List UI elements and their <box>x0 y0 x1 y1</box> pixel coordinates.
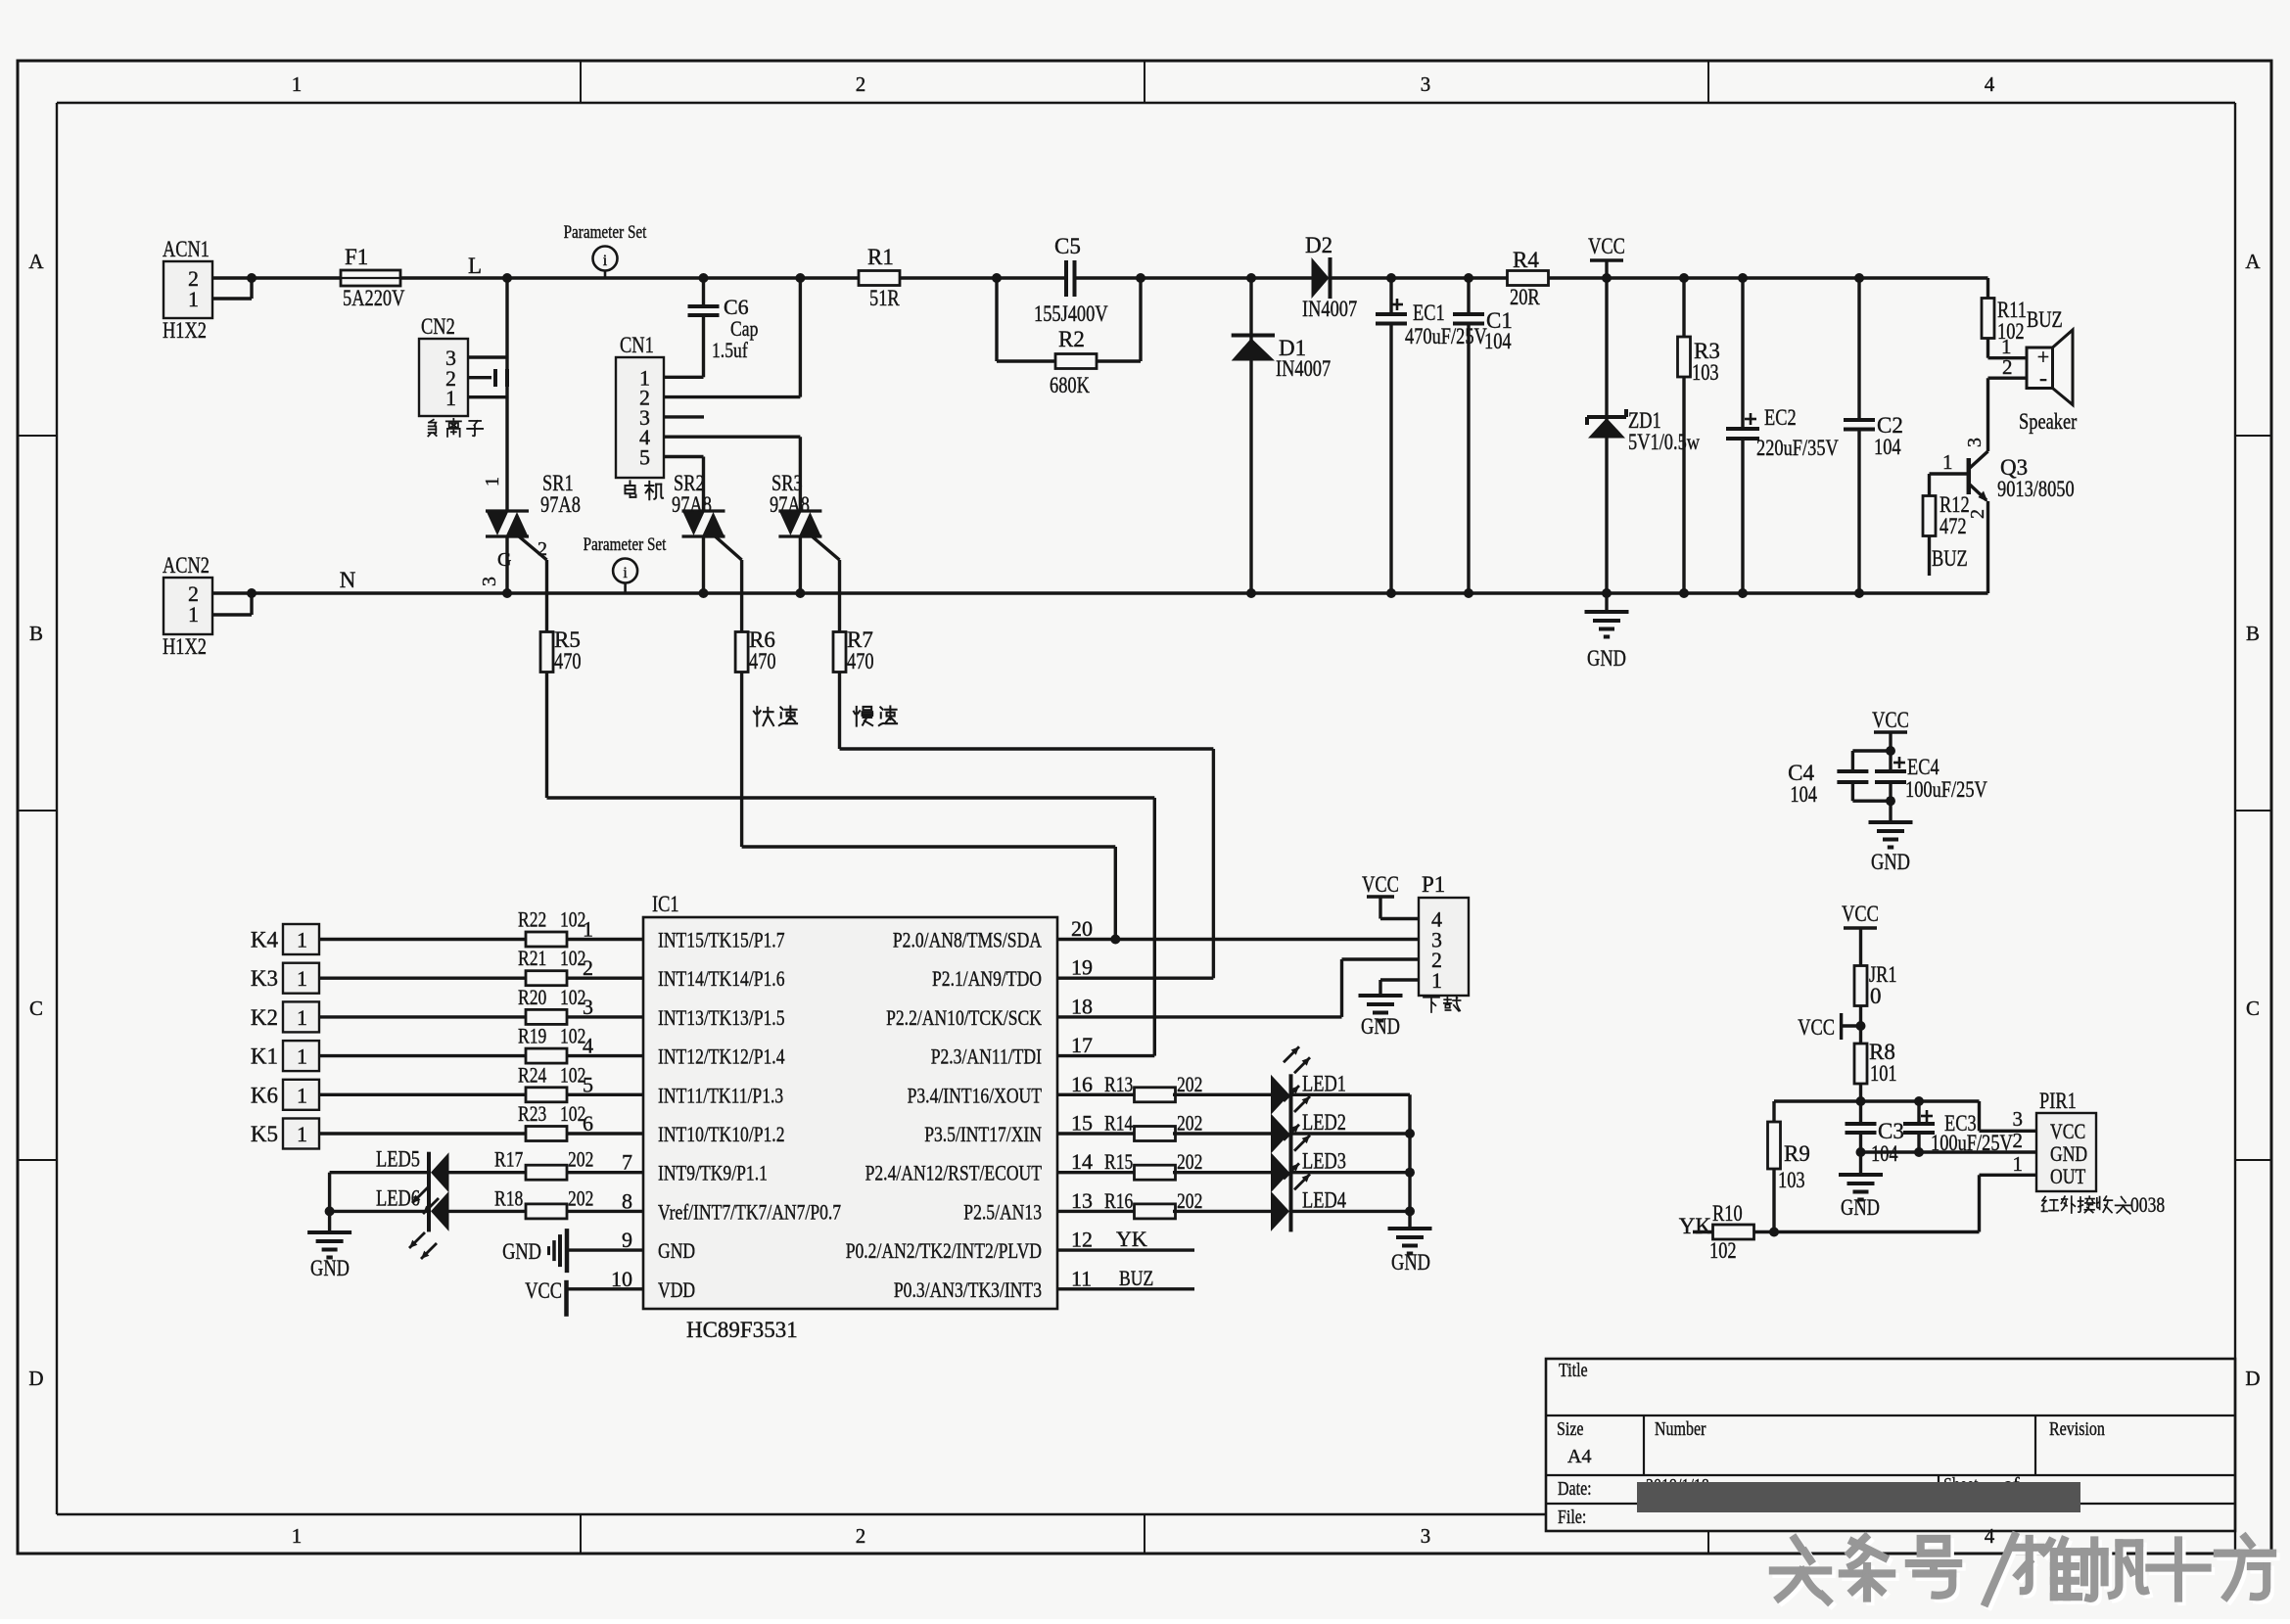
power VCC main <box>1588 234 1625 278</box>
svg-text:7: 7 <box>622 1150 632 1175</box>
svg-text:VCC: VCC <box>1588 234 1625 258</box>
junction R3 bottom <box>1679 588 1689 598</box>
net label BUZ top <box>2027 307 2063 332</box>
svg-text:3: 3 <box>1421 72 1431 96</box>
svg-text:Parameter Set: Parameter Set <box>584 534 667 555</box>
resistor R10 102 <box>1693 1201 1774 1263</box>
wire LED1 to LED gnd bus <box>1291 1093 1411 1096</box>
svg-text:4: 4 <box>1985 72 1995 96</box>
connector K6 <box>251 1080 319 1110</box>
svg-text:5: 5 <box>639 445 650 470</box>
net label N <box>340 568 356 592</box>
wire node line <box>1774 1099 1980 1102</box>
svg-text:INT11/TK11/P1.3: INT11/TK11/P1.3 <box>658 1083 783 1107</box>
junction R3 top <box>1679 273 1689 283</box>
capacitor EC2 220uF/35V <box>1726 278 1839 593</box>
svg-text:1: 1 <box>1431 968 1442 993</box>
svg-text:P3.5/INT17/XIN: P3.5/INT17/XIN <box>924 1122 1042 1146</box>
svg-text:BUZ: BUZ <box>1119 1266 1153 1290</box>
capacitor CN2-pin2 coupling plates <box>495 369 507 387</box>
svg-text:14: 14 <box>1071 1149 1093 1174</box>
svg-text:102: 102 <box>560 907 585 932</box>
power VCC at P1 <box>1362 872 1419 919</box>
IC1 left pin numbers <box>583 917 632 1291</box>
svg-text:LED3: LED3 <box>1302 1149 1346 1174</box>
svg-text:LED6: LED6 <box>376 1185 420 1210</box>
indicator Parameter Set 2 <box>584 534 667 593</box>
svg-text:102: 102 <box>560 985 585 1009</box>
wire R20 to IC pin 3 <box>567 1015 643 1018</box>
svg-text:3: 3 <box>1421 1524 1431 1548</box>
LED5 LED6 emission arrows <box>409 1187 439 1259</box>
svg-text:18: 18 <box>1071 994 1093 1018</box>
ground GND at C3 <box>1839 1152 1883 1220</box>
svg-text:1.5uf: 1.5uf <box>712 338 748 362</box>
svg-text:P0.2/AN2/TK2/INT2/PLVD: P0.2/AN2/TK2/INT2/PLVD <box>846 1238 1042 1263</box>
svg-text:680K: 680K <box>1050 373 1090 397</box>
resistor R1 51R <box>859 245 900 310</box>
svg-text:102: 102 <box>560 1101 585 1126</box>
wire SR3 gate to R7 <box>838 560 841 631</box>
resistor R23 102 <box>518 1101 585 1141</box>
svg-text:15: 15 <box>1071 1111 1093 1136</box>
svg-text:Number: Number <box>1655 1418 1706 1440</box>
junction EC1 bottom <box>1386 588 1396 598</box>
svg-text:C: C <box>2246 997 2260 1020</box>
svg-text:INT14/TK14/P1.6: INT14/TK14/P1.6 <box>658 966 785 991</box>
label xia-zai (download) <box>1424 997 1461 1012</box>
svg-text:19: 19 <box>1071 955 1093 980</box>
svg-text:GND: GND <box>658 1238 695 1263</box>
svg-text:3: 3 <box>1964 438 1986 447</box>
wire IC pin16 to R13 <box>1057 1093 1137 1096</box>
svg-text:9013/8050: 9013/8050 <box>1997 477 2075 501</box>
svg-text:1: 1 <box>297 928 307 952</box>
svg-text:1: 1 <box>292 72 303 96</box>
svg-text:1: 1 <box>2013 1152 2024 1176</box>
svg-text:1: 1 <box>445 386 456 410</box>
resistor R20 102 <box>518 985 585 1025</box>
svg-text:470: 470 <box>847 649 874 673</box>
wire R15 to LED3 <box>1173 1171 1271 1174</box>
wire R19 to IC pin 4 <box>567 1054 643 1057</box>
resistor R3 103 <box>1678 278 1720 593</box>
wire CN1 pin4 to SR3 <box>799 437 802 511</box>
junction VCC main <box>1602 273 1612 283</box>
zone labels right <box>2245 250 2261 1390</box>
capacitor C1 104 <box>1453 278 1513 593</box>
wire IC pin12 YK <box>1057 1227 1194 1251</box>
IC pin9 GND side symbol <box>502 1229 643 1273</box>
svg-text:1: 1 <box>297 1044 307 1069</box>
svg-text:C3: C3 <box>1878 1119 1904 1143</box>
wire R7 net to IC pin19 <box>840 673 1214 979</box>
svg-text:Size: Size <box>1557 1418 1584 1440</box>
triac SR3 97A8 <box>770 471 840 593</box>
svg-text:202: 202 <box>568 1147 593 1172</box>
svg-text:EC2: EC2 <box>1764 405 1797 430</box>
connector P1 (download) <box>1419 872 1469 996</box>
svg-text:100uF/25V: 100uF/25V <box>1905 777 1987 802</box>
LED LED6 <box>376 1185 449 1231</box>
LED LED3 <box>1271 1125 1346 1193</box>
svg-text:12: 12 <box>1071 1228 1093 1252</box>
svg-text:P2.3/AN11/TDI: P2.3/AN11/TDI <box>931 1044 1042 1069</box>
svg-text:P2.4/AN12/RST/ECOUT: P2.4/AN12/RST/ECOUT <box>865 1161 1043 1185</box>
transistor Q3 9013/8050 <box>1930 438 2075 593</box>
svg-text:Speaker: Speaker <box>2019 409 2078 434</box>
svg-text:1: 1 <box>482 477 503 487</box>
svg-text:BUZ: BUZ <box>1932 546 1968 571</box>
LED LED5 <box>376 1147 449 1193</box>
junction SR1 at N bus <box>502 588 512 598</box>
resistor R19 102 <box>518 1024 585 1064</box>
wire IC pin13 to R16 <box>1057 1210 1137 1213</box>
svg-text:9: 9 <box>622 1228 632 1252</box>
resistor R7 470 <box>833 627 874 673</box>
svg-text:8: 8 <box>622 1188 632 1213</box>
svg-text:ACN2: ACN2 <box>163 553 210 578</box>
zone labels bottom <box>292 1524 1995 1548</box>
wire R5 net to IC pin17 <box>547 673 1155 1056</box>
svg-text:P2.0/AN8/TMS/SDA: P2.0/AN8/TMS/SDA <box>893 928 1042 952</box>
connector K2 <box>251 1001 319 1032</box>
wire PIR pin1 OUT loop <box>1774 1175 2036 1231</box>
svg-text:Revision: Revision <box>2049 1418 2105 1440</box>
svg-text:ACN1: ACN1 <box>163 237 210 261</box>
svg-text:R10: R10 <box>1712 1201 1743 1226</box>
zone labels left <box>28 250 44 1390</box>
watermark toutiao/yafanshifang <box>1773 1536 2276 1606</box>
svg-text:R19: R19 <box>518 1024 546 1048</box>
svg-text:20R: 20R <box>1510 285 1540 309</box>
junction C1 bottom <box>1464 588 1473 598</box>
wire K2 to R20 <box>319 1015 526 1018</box>
net label YK right <box>1679 1214 1712 1238</box>
resistor R4 20R <box>1508 248 1549 309</box>
resistor R9 103 <box>1768 1101 1810 1232</box>
wire CN1 pin5 to SR2 <box>702 457 705 512</box>
svg-text:17: 17 <box>1071 1033 1093 1057</box>
svg-text:i: i <box>623 565 628 581</box>
wire N/GND bottom bus <box>252 591 1988 594</box>
svg-text:IC1: IC1 <box>652 892 679 916</box>
svg-text:VDD: VDD <box>658 1277 695 1302</box>
svg-text:CN2: CN2 <box>421 314 455 339</box>
IC1 right pin labels <box>846 928 1043 1302</box>
svg-text:LED2: LED2 <box>1302 1110 1346 1135</box>
wire node to PIR pin3 <box>1980 1101 2037 1131</box>
indicator Parameter Set 1 <box>564 222 647 278</box>
LED LED4 <box>1271 1163 1346 1231</box>
svg-text:16: 16 <box>1071 1072 1093 1096</box>
svg-text:LED4: LED4 <box>1302 1187 1346 1212</box>
wire R18 to IC pin8 <box>567 1210 643 1213</box>
junction VCC tap <box>1856 1021 1866 1031</box>
svg-text:GND: GND <box>2050 1141 2087 1166</box>
svg-text:LED1: LED1 <box>1302 1071 1346 1095</box>
IC pin10 VDD VCC bar <box>525 1278 643 1317</box>
svg-text:R22: R22 <box>518 907 546 932</box>
svg-text:YK: YK <box>1679 1214 1712 1238</box>
svg-text:R14: R14 <box>1104 1111 1133 1136</box>
svg-text:101: 101 <box>1870 1061 1897 1086</box>
junction node R8 <box>1856 1096 1866 1106</box>
junction CN1-pin2 riser at bus <box>795 273 805 283</box>
svg-text:202: 202 <box>1177 1149 1202 1174</box>
svg-text:D2: D2 <box>1305 233 1332 257</box>
svg-text:5A220V: 5A220V <box>343 286 405 310</box>
wire K3 to R21 <box>319 977 526 980</box>
diode D1 IN4007 <box>1232 278 1332 593</box>
wire K5 to R23 <box>319 1132 526 1135</box>
svg-text:20: 20 <box>1071 916 1093 941</box>
svg-text:K6: K6 <box>251 1083 278 1107</box>
wire R13 to LED1 <box>1173 1093 1271 1096</box>
power VCC at EC4 <box>1872 708 1909 751</box>
wire LED5 anode to R17 <box>449 1171 527 1174</box>
label hong-wai-jie-shou-tou 0038 (IR receiver 0038) <box>2041 1192 2165 1217</box>
svg-text:A: A <box>28 250 44 273</box>
svg-text:1: 1 <box>188 287 199 311</box>
diode D2 IN4007 <box>1302 233 1357 321</box>
svg-text:GND: GND <box>1361 1014 1400 1039</box>
svg-text:C: C <box>29 997 43 1020</box>
wire K6 to R24 <box>319 1093 526 1096</box>
wire R14 to LED2 <box>1173 1132 1271 1135</box>
resistor R15 202 <box>1104 1149 1202 1180</box>
svg-text:1: 1 <box>297 1122 307 1146</box>
junction EC4 top <box>1886 746 1895 756</box>
svg-text:104: 104 <box>1484 329 1512 353</box>
connector K5 <box>251 1119 319 1149</box>
junction R2 left <box>992 273 1002 283</box>
capacitor C5 155J400V <box>1034 234 1108 326</box>
triac SR1 97A8 <box>479 471 581 593</box>
svg-text:R24: R24 <box>518 1062 546 1087</box>
svg-text:1: 1 <box>292 1524 303 1548</box>
junction pin20/R6 <box>1110 935 1120 945</box>
svg-text:VCC: VCC <box>1872 708 1909 732</box>
zone dividers right <box>2235 436 2271 1160</box>
svg-text:File:: File: <box>1558 1507 1586 1528</box>
fuse F1 5A220V <box>341 245 405 310</box>
junction EC4 bottom <box>1886 796 1895 806</box>
wire R8 to node <box>1859 1084 1862 1101</box>
net label BUZ bottom <box>1932 546 1968 571</box>
svg-text:GND: GND <box>310 1256 350 1280</box>
wire IC pin14 to R15 <box>1057 1171 1137 1174</box>
svg-text:R20: R20 <box>518 985 546 1009</box>
wire IC pin20 to P1 pin3 <box>1057 938 1419 941</box>
label kuai-su (fast) <box>754 706 797 725</box>
svg-text:1: 1 <box>297 1083 307 1107</box>
connector ACN1 H1X2 <box>163 237 252 343</box>
svg-text:220uF/35V: 220uF/35V <box>1756 436 1839 460</box>
junction EC1 top <box>1386 273 1396 283</box>
redaction bar <box>1637 1482 2080 1512</box>
svg-text:R17: R17 <box>494 1147 523 1172</box>
resistor R13 202 <box>1104 1072 1202 1102</box>
resistor R14 202 <box>1104 1111 1202 1141</box>
wire IC pin18 to P1 pin2 <box>1057 959 1419 1017</box>
LED LED1 <box>1271 1046 1346 1115</box>
svg-text:VCC: VCC <box>2050 1119 2085 1143</box>
svg-text:D: D <box>28 1367 43 1390</box>
wire JR1 to R8 <box>1859 1006 1862 1044</box>
wire R23 to IC pin 6 <box>567 1132 643 1135</box>
svg-text:G: G <box>497 549 511 571</box>
junction C6 at bus <box>699 273 709 283</box>
triac SR2 97A8 <box>672 471 742 593</box>
svg-text:3: 3 <box>2013 1107 2024 1131</box>
svg-text:INT9/TK9/P1.1: INT9/TK9/P1.1 <box>658 1161 768 1185</box>
svg-text:0: 0 <box>1870 984 1882 1008</box>
junction SR3 at N bus <box>795 588 805 598</box>
svg-text:470: 470 <box>554 649 582 673</box>
junction ACN2 <box>247 588 257 598</box>
wire R17 to IC pin7 <box>567 1171 643 1174</box>
wire LED2 to LED gnd bus <box>1291 1132 1411 1135</box>
svg-text:2: 2 <box>537 538 547 560</box>
svg-text:-: - <box>2039 366 2047 392</box>
svg-text:104: 104 <box>1874 435 1901 459</box>
wire LED gnd bus vertical <box>1408 1094 1411 1229</box>
svg-text:103: 103 <box>1692 360 1719 385</box>
wire SR2 gate to R6 <box>740 560 743 631</box>
label dian-ji (motor) <box>625 481 663 499</box>
resistor R16 202 <box>1104 1188 1202 1219</box>
IC U IC1 HC89F3531 body <box>643 892 1057 1342</box>
svg-text:11: 11 <box>1071 1266 1092 1290</box>
junction EC2 top <box>1738 273 1748 283</box>
svg-text:103: 103 <box>1778 1168 1805 1192</box>
svg-text:LED5: LED5 <box>376 1147 420 1172</box>
title block <box>1546 1359 2235 1531</box>
svg-text:102: 102 <box>560 1024 585 1048</box>
svg-text:VCC: VCC <box>1798 1015 1835 1040</box>
svg-text:YK: YK <box>1116 1227 1147 1251</box>
wire CN1 pin2 to L bus <box>799 278 802 397</box>
wire L bus segments <box>252 276 1988 279</box>
svg-text:INT12/TK12/P1.4: INT12/TK12/P1.4 <box>658 1044 785 1069</box>
svg-text:97A8: 97A8 <box>672 492 712 517</box>
connector K1 <box>251 1041 319 1071</box>
junction C1 top <box>1464 273 1473 283</box>
wire LED6 anode to R18 <box>449 1210 527 1213</box>
svg-text:51R: 51R <box>869 286 900 310</box>
junction EC2 bottom <box>1738 588 1748 598</box>
svg-text:P3.4/INT16/XOUT: P3.4/INT16/XOUT <box>908 1083 1043 1107</box>
svg-text:R15: R15 <box>1104 1149 1133 1174</box>
svg-text:Title: Title <box>1559 1360 1588 1381</box>
svg-text:202: 202 <box>568 1185 593 1210</box>
svg-text:1: 1 <box>297 966 307 991</box>
svg-text:R9: R9 <box>1784 1141 1810 1166</box>
svg-text:B: B <box>2246 622 2260 645</box>
wire SR1 gate to R5 <box>545 560 548 631</box>
svg-text:F1: F1 <box>345 245 368 269</box>
junction SR2 at N bus <box>699 588 709 598</box>
connector K3 <box>251 963 319 994</box>
svg-text:Parameter Set: Parameter Set <box>564 222 647 243</box>
svg-text:13: 13 <box>1071 1188 1093 1213</box>
svg-text:102: 102 <box>1709 1238 1737 1263</box>
zone dividers left <box>18 436 57 1160</box>
speaker SP <box>1988 330 2078 451</box>
svg-text:H1X2: H1X2 <box>163 318 207 343</box>
junction LED4 <box>1405 1206 1415 1216</box>
junction gnd row EC3 <box>1914 1147 1924 1157</box>
svg-text:GND: GND <box>1871 850 1910 874</box>
junction LED3 <box>1405 1168 1415 1178</box>
svg-text:472: 472 <box>1939 514 1967 538</box>
zener ZD1 5V1/0.5w <box>1587 278 1700 593</box>
label fu-li-zi (negative ion) <box>428 419 483 437</box>
svg-text:N: N <box>340 568 356 592</box>
wire R6 net to IC pin20 <box>742 673 1116 940</box>
svg-text:A: A <box>2245 250 2261 273</box>
svg-text:R16: R16 <box>1104 1188 1133 1213</box>
svg-text:L: L <box>468 254 482 278</box>
svg-text:D: D <box>2245 1367 2260 1390</box>
junction node EC3 <box>1914 1096 1924 1106</box>
connector CN2 (negative-ion) <box>419 314 507 416</box>
svg-text:1: 1 <box>297 1005 307 1030</box>
svg-text:Date:: Date: <box>1558 1478 1592 1500</box>
svg-text:K5: K5 <box>251 1122 278 1146</box>
junction R2 right <box>1136 273 1145 283</box>
resistor R8 101 <box>1854 1040 1897 1086</box>
svg-text:GND: GND <box>1587 646 1626 671</box>
capacitor C6 1.5uf <box>664 278 758 377</box>
svg-text:A4: A4 <box>1567 1446 1591 1467</box>
svg-text:H1X2: H1X2 <box>163 634 207 659</box>
connector ACN2 H1X2 <box>163 553 252 659</box>
svg-text:155J400V: 155J400V <box>1034 302 1108 326</box>
svg-text:5V1/0.5w: 5V1/0.5w <box>1628 430 1700 454</box>
svg-text:2: 2 <box>2002 355 2013 379</box>
wire R16 to LED4 <box>1173 1210 1271 1213</box>
svg-text:K3: K3 <box>251 966 278 991</box>
wire R22 to IC pin 1 <box>567 938 643 941</box>
ground GND left of LEDs <box>307 1211 351 1280</box>
wire LED3 to LED gnd bus <box>1291 1171 1411 1174</box>
resistor R17 202 <box>494 1147 593 1181</box>
resistor R6 470 <box>735 627 776 673</box>
svg-text:EC1: EC1 <box>1413 301 1445 325</box>
svg-text:PIR1: PIR1 <box>2039 1089 2077 1113</box>
svg-text:IN4007: IN4007 <box>1276 356 1331 381</box>
junction LED6 gnd <box>325 1206 335 1216</box>
wire R24 to IC pin 5 <box>567 1093 643 1096</box>
svg-text:K2: K2 <box>251 1005 278 1030</box>
svg-text:R23: R23 <box>518 1101 546 1126</box>
junction CN2 at bus <box>502 273 512 283</box>
svg-text:INT13/TK13/P1.5: INT13/TK13/P1.5 <box>658 1005 785 1030</box>
junction R9/R10 bottom <box>1769 1228 1779 1237</box>
wire PIR gnd row <box>1861 1150 2037 1153</box>
svg-text:2: 2 <box>2013 1129 2024 1152</box>
svg-text:C5: C5 <box>1054 234 1081 258</box>
svg-text:OUT: OUT <box>2050 1164 2086 1188</box>
IC1 right pin numbers <box>1071 916 1093 1290</box>
svg-text:INT15/TK15/P1.7: INT15/TK15/P1.7 <box>658 928 785 952</box>
junction C2 top <box>1854 273 1864 283</box>
svg-text:R1: R1 <box>867 245 894 269</box>
IC1 left pin labels <box>658 928 841 1302</box>
svg-text:10: 10 <box>611 1267 632 1291</box>
